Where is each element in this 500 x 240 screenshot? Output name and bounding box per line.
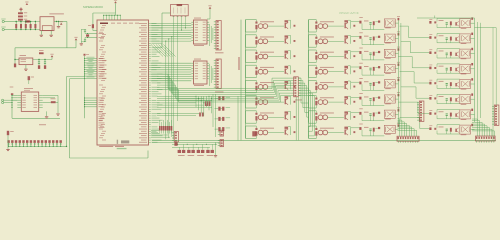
wire bus micro to SV3 staircase [157, 73, 168, 75]
relay K23 box [460, 110, 471, 119]
wire band E lower lines [151, 130, 159, 132]
led tick K22 [429, 97, 431, 100]
transistor K24 [455, 129, 456, 132]
led tick OUT7 [255, 113, 257, 115]
wire feed OUT5 [351, 81, 359, 83]
transistor Q9 [345, 23, 346, 28]
capacitor C21 [369, 22, 371, 23]
resistor R4 [7, 131, 9, 135]
microcontroller xtal pins [94, 33, 98, 35]
resistor R101 [255, 25, 257, 29]
wire X1-1 to bus [4, 21, 16, 23]
wire feed loop K17 [437, 17, 460, 19]
led tick OUT6 [255, 98, 257, 100]
wire IC3 left bus [11, 95, 13, 118]
pin header SV10 horizontal [397, 136, 419, 141]
wire bottom bus [16, 29, 40, 31]
optocoupler OK10 label [320, 36, 334, 39]
transistor Q1 [285, 23, 286, 28]
capacitor C421 [446, 83, 448, 84]
optocoupler OK15 [318, 115, 323, 120]
transistor Q12 [345, 69, 346, 74]
wire opto collector OUT14 [328, 101, 344, 103]
schematic sheet background [0, 0, 500, 161]
led tick OUT5 [255, 82, 257, 84]
transistor Q4 [285, 69, 286, 74]
dc-dc module U2 label UNIT 7.5 [49, 12, 64, 15]
wire relay out K21 [471, 83, 475, 85]
vcc tick K6 [398, 94, 400, 96]
optocoupler OK12 [318, 69, 323, 74]
ground GND7 xtal [80, 29, 82, 43]
relay K8 label [385, 133, 391, 136]
wire bottom loop K23 [437, 118, 460, 120]
component module OUT1 [285, 20, 289, 22]
wire bottom loop K24 [437, 133, 460, 135]
wire DIP to header risers [209, 24, 211, 46]
led tick K1 [359, 21, 361, 24]
microcontroller IC1 name below [99, 146, 113, 147]
relay K18 box [460, 34, 471, 43]
transistor K19 [455, 53, 456, 56]
led tick OUT2 [255, 37, 257, 39]
led tick K4 [359, 66, 361, 69]
resistor R116 [315, 131, 317, 135]
optocoupler OK10 [318, 39, 323, 44]
resistor R113 [315, 86, 317, 90]
diode D2 bypass [39, 52, 44, 54]
led tick K23 [429, 112, 431, 115]
svg-text:SCHEMA MICRO: SCHEMA MICRO [83, 5, 103, 9]
wire SV3 down rails [295, 97, 297, 140]
capacitor C5 electrolytic input [14, 64, 16, 68]
wire collector riser OUT13 [349, 81, 351, 89]
wire collector riser OUT1 [290, 20, 292, 28]
ic IC3 box [21, 92, 38, 111]
pin header SV2 label [215, 92, 224, 93]
vcc tick K21 [471, 78, 473, 80]
ground GND9 below U2 output [58, 22, 60, 27]
transistor K23 [455, 113, 456, 116]
wire opto collector OUT1 [268, 25, 284, 27]
diode D25 [373, 82, 375, 86]
vcc tick K5 [398, 79, 400, 81]
diode D424 [450, 128, 452, 132]
optocoupler OK4 [258, 69, 263, 74]
vcc tick K4 [398, 64, 400, 66]
emitter tick OUT12 [353, 70, 355, 72]
relay K17 label [461, 27, 467, 30]
component K0 pin numbers [173, 15, 175, 18]
resistor label K8 [364, 126, 369, 129]
component X4 input [174, 142, 177, 146]
emitter tick OUT10 [353, 40, 355, 42]
emitter tick OUT1 [294, 25, 296, 27]
resistor label K2 [364, 35, 369, 38]
wire bottom loop K21 [437, 87, 460, 89]
wire input bracket OUT9 [308, 20, 310, 32]
pin header SV1 label [215, 52, 224, 53]
wire feed loop K24 [437, 124, 460, 126]
wire band C mesh [157, 95, 196, 97]
resistor R1 [18, 12, 23, 14]
wire X3 to IC3 [4, 99, 18, 101]
connector JP1 pins [7, 140, 9, 143]
wire IC3 bottom rail [12, 117, 60, 119]
wire bottom loop K20 [437, 72, 460, 74]
microcontroller reset resistor R5 [92, 24, 94, 28]
resistor label K7 [364, 111, 369, 114]
diode D418 [450, 37, 452, 41]
led tick K6 [359, 97, 361, 100]
transistor Q2 [285, 38, 286, 43]
led tick K8 [359, 127, 361, 130]
pin header SV2 [216, 59, 221, 88]
vcc VCC4 above micro [114, 1, 117, 3]
text label above IC3 wires [10, 86, 14, 89]
microcontroller top pins [104, 14, 121, 16]
wire bottom loop K18 [437, 42, 460, 44]
wire micro-left long net A [67, 76, 85, 78]
resistor label K18 [439, 34, 444, 37]
relay K21 label [461, 88, 467, 91]
wire input bracket OUT14 [308, 96, 310, 108]
wire input bracket OUT16 [308, 126, 310, 138]
relay K4 box [384, 65, 395, 73]
resistor ladder RN1 [159, 126, 161, 131]
junction dots input bus [16, 21, 17, 22]
relay K6 box [384, 95, 395, 103]
optocoupler OK13 label [320, 81, 334, 84]
microcontroller left pin stubs lower [85, 97, 98, 99]
optocoupler OK3 [258, 54, 263, 59]
wire bottom rail main [152, 139, 496, 141]
resistor label K22 [439, 95, 444, 98]
optocoupler OK4 label [260, 66, 274, 69]
diode D26 [373, 97, 375, 101]
transistor Q14 [345, 99, 346, 104]
capacitor C24 [369, 68, 371, 69]
wire relay out K7 [395, 113, 398, 115]
led tick OUT14 [315, 98, 317, 100]
capacitor C424 [446, 129, 448, 130]
resistor R102 [255, 40, 257, 44]
transistor tick K7 [378, 112, 380, 114]
wire bottom loop K2 [362, 44, 384, 46]
transistor Q16 [345, 129, 346, 134]
transistor Q10 [345, 38, 346, 43]
svg-text:VERSION SORTIE: VERSION SORTIE [339, 13, 359, 15]
led tick OUT4 [255, 67, 257, 69]
wire collector riser OUT3 [290, 51, 292, 59]
ground GND3 [25, 65, 27, 69]
relay K6 label [385, 102, 391, 105]
led tick OUT12 [315, 67, 317, 69]
relay K7 label [385, 118, 391, 121]
diode D24 [373, 67, 375, 71]
capacitor C423 [446, 113, 448, 114]
wire feed OUT6 [351, 96, 359, 98]
led tick OUT16 [315, 128, 317, 130]
transistor tick K1 [378, 21, 380, 23]
led tick OUT3 [255, 52, 257, 54]
optocoupler OK12 label [320, 66, 334, 69]
relay K2 label [385, 42, 391, 45]
capacitor C1 [20, 24, 22, 28]
wire diagonal bus jog [151, 45, 163, 57]
wire U2 output [54, 21, 67, 23]
connector X1-1 [2, 20, 4, 22]
optocoupler OK7 [258, 115, 263, 120]
optocoupler OK13 [318, 85, 323, 90]
wire bottom loop K6 [362, 105, 384, 107]
led tick OUT8 [255, 128, 257, 130]
resistor R109 [315, 25, 317, 29]
component module OUT4 [285, 66, 289, 68]
wire fan to SV10 [398, 119, 400, 137]
wire relay out K5 [395, 83, 398, 85]
wire opto collector OUT3 [268, 56, 284, 58]
emitter tick OUT4 [294, 70, 296, 72]
wire input bracket OUT13 [308, 80, 310, 92]
wire rail to regulator [14, 48, 16, 60]
diode D419 [450, 52, 452, 56]
ground GND6 [7, 146, 9, 148]
ic IC5 box [194, 61, 208, 84]
emitter tick OUT14 [353, 101, 355, 103]
emitter tick OUT7 [294, 116, 296, 118]
capacitor C7 electrolytic [38, 65, 40, 69]
wire collector riser OUT12 [349, 66, 351, 74]
microcontroller left labels mid [99, 111, 103, 114]
led tick OUT15 [315, 113, 317, 115]
pin header SV11 vertical [494, 105, 499, 125]
relay K19 label [461, 57, 467, 60]
wire reset net [92, 28, 94, 30]
microcontroller IC1 title block [100, 23, 108, 25]
diode D3 [51, 101, 56, 103]
capacitor C422 [446, 98, 448, 99]
wire feed loop K19 [437, 48, 460, 50]
wire bottom loop K7 [362, 120, 384, 122]
transistor K21 [455, 83, 456, 86]
wire stack to bus [19, 20, 21, 23]
wire relay out K18 [471, 37, 475, 39]
wire bank A verticals [397, 20, 399, 124]
wire top bus [16, 21, 40, 23]
wire micro-left long net B [70, 78, 85, 80]
led tick K7 [359, 112, 361, 115]
emitter tick OUT15 [353, 116, 355, 118]
relay K1 box [384, 19, 395, 27]
ic IC3 pins right [39, 94, 43, 96]
optocoupler OK15 label [320, 112, 334, 115]
diode D423 [450, 113, 452, 117]
transistor Q8 [285, 129, 286, 134]
relay K5 label [385, 87, 391, 90]
emitter tick OUT6 [294, 101, 296, 103]
relay K24 box [460, 125, 471, 134]
diode D417 [450, 21, 452, 25]
component module OUT12 [344, 66, 348, 68]
diode D23 [373, 52, 375, 56]
relay K5 box [384, 80, 395, 88]
resistor label K3 [364, 50, 369, 53]
pin header SV8 [220, 140, 224, 147]
vcc tick K24 [471, 124, 473, 126]
wire input bracket OUT1 [245, 20, 247, 32]
dc-dc module U2 box [40, 17, 54, 31]
resistor label K20 [439, 65, 444, 68]
wire input bracket OUT2 [245, 35, 247, 47]
emitter tick OUT5 [294, 86, 296, 88]
crystal Q1 [86, 34, 89, 36]
connector X1-2 [2, 28, 4, 30]
optocoupler OK14 label [320, 96, 334, 99]
wire opto collector OUT7 [268, 116, 284, 118]
emitter tick OUT13 [353, 86, 355, 88]
optocoupler OK5 label [260, 81, 274, 84]
transistor tick K3 [378, 51, 380, 53]
wire opto collector OUT15 [328, 116, 344, 118]
wire opto collector OUT9 [328, 25, 344, 27]
wire relay out K4 [395, 68, 398, 70]
capacitor C9 electrolytic [44, 65, 46, 69]
wire feed loop K22 [437, 93, 460, 95]
led tick K17 [429, 21, 431, 24]
wire input bracket OUT15 [308, 111, 310, 123]
microcontroller IC1 box [97, 20, 149, 145]
component module OUT11 [344, 51, 348, 53]
ic IC3 pins left [17, 94, 21, 96]
wire input bracket OUT5 [245, 80, 247, 92]
resistor R3 [18, 19, 23, 21]
led tick K20 [429, 67, 431, 70]
optocoupler OK2 [258, 39, 263, 44]
wire collector riser OUT15 [349, 111, 351, 119]
ground GND2 [50, 31, 52, 35]
transistor Q3 [285, 53, 286, 58]
diode D28 [373, 128, 375, 132]
component module OUT13 [344, 81, 348, 83]
wire collector riser OUT6 [290, 96, 292, 104]
wire input bracket OUT12 [308, 65, 310, 77]
capacitor C25 [369, 83, 371, 84]
vcc VOUT tick [60, 23, 63, 25]
wire collector riser OUT11 [349, 51, 351, 59]
optocoupler OK5 [258, 85, 263, 90]
wire caps risers [212, 94, 214, 127]
resistor label K4 [364, 65, 369, 68]
capacitor C22 [369, 37, 371, 38]
transistor K20 [455, 68, 456, 71]
led tick OUT11 [315, 52, 317, 54]
wire feed OUT4 [351, 66, 359, 68]
optocoupler OK8 label [260, 127, 274, 130]
capacitor C12 xtal [84, 38, 86, 41]
wire collector riser OUT16 [349, 127, 351, 135]
relay K8 box [384, 125, 395, 133]
transistor Q11 [345, 53, 346, 58]
led tick OUT9 [315, 22, 317, 24]
vcc tick K20 [471, 63, 473, 65]
ground GND4 [46, 111, 48, 116]
resistor label K21 [439, 80, 444, 83]
component module OUT7 [285, 111, 289, 113]
relay K22 label [461, 103, 467, 106]
wire bottom loop K5 [362, 89, 384, 91]
diode D21 [373, 21, 375, 25]
junction dots regulator [38, 59, 39, 60]
wire feed loop K20 [437, 63, 460, 65]
relay K17 box [460, 19, 471, 28]
wire feed loop K23 [437, 109, 460, 111]
wire bottom loop K19 [437, 57, 460, 59]
resistor R108 [255, 131, 257, 135]
component module OUT5 [285, 81, 289, 83]
optocoupler OK3 label [260, 51, 274, 54]
emitter tick OUT11 [353, 55, 355, 57]
wire input bracket OUT7 [245, 111, 247, 123]
connector row X2 [178, 150, 181, 153]
optocoupler OK1 label [260, 20, 274, 23]
capacitor C419 [446, 53, 448, 54]
component module OUT16 [344, 127, 348, 129]
vertical red label [238, 57, 239, 70]
emitter tick OUT16 [353, 131, 355, 133]
resistor R111 [315, 55, 317, 59]
optocoupler OK6 [258, 100, 263, 105]
optocoupler OK9 [318, 24, 323, 29]
wire mesh bottom connectors [172, 143, 216, 145]
relay K20 box [460, 64, 471, 73]
wire band D [157, 113, 199, 115]
component module OUT6 [285, 96, 289, 98]
wire collector riser OUT10 [349, 35, 351, 43]
wire relay out K19 [471, 53, 475, 55]
diode D421 [450, 82, 452, 86]
resistor R106 [255, 101, 257, 105]
wire feed OUT1 [351, 20, 359, 22]
wire bottom loop K17 [437, 27, 460, 29]
resistor label K1 [364, 20, 369, 23]
wire vcc to micro top [115, 3, 117, 13]
component cluster A 3-bar [205, 101, 207, 106]
wire input bracket OUT10 [308, 35, 310, 47]
resistor label K19 [439, 50, 444, 53]
transistor tick K5 [378, 81, 380, 83]
optocoupler OK11 label [320, 51, 334, 54]
wire bus band A to IC4 [151, 23, 192, 25]
diode D422 [450, 97, 452, 101]
ic IC3 label [24, 87, 33, 90]
wire JP1 bus [8, 145, 67, 147]
vcc VCC2 [75, 38, 78, 40]
wire feed loop K18 [437, 33, 460, 35]
wire bank B verticals [474, 18, 476, 122]
wire U2 down to rail [66, 22, 68, 48]
wire supply rail horizontal [15, 47, 76, 49]
transistor Q6 [285, 99, 286, 104]
optocoupler OK16 label [320, 127, 334, 130]
relay K19 box [460, 49, 471, 58]
wire fan to SV12 [476, 119, 478, 136]
wire top rail right [417, 17, 475, 19]
wire xtal to caps [84, 32, 86, 34]
resistor R103 [255, 55, 257, 59]
capacitor C8 [44, 60, 46, 62]
component cluster B pair [199, 113, 201, 117]
